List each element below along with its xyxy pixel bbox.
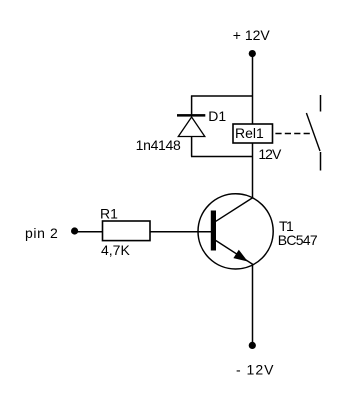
svg-text:12V: 12V [258, 146, 282, 162]
node +12V terminal dot [249, 50, 256, 57]
wire main vertical: +12V dot to relay top [252, 54, 254, 124]
wire pin2 dot to resistor [75, 231, 103, 233]
diode D1 cathode bar [177, 114, 205, 117]
svg-text:pin 2: pin 2 [25, 225, 58, 241]
wire main vertical: emitter to -12V dot [252, 265, 254, 346]
wire resistor to transistor base [150, 231, 213, 233]
diode D1 triangle [178, 117, 205, 137]
svg-text:- 12V: - 12V [236, 362, 274, 378]
transistor T1 circle [198, 194, 273, 269]
svg-text:BC547: BC547 [278, 232, 318, 248]
transistor T1 emitter arrowhead [233, 250, 247, 262]
wire diode branch bottom horizontal [191, 156, 253, 158]
relay actuator dashed link [275, 133, 309, 135]
wire diode branch top horizontal [191, 95, 253, 97]
svg-text:R1: R1 [100, 205, 118, 221]
transistor T1 emitter line [216, 241, 253, 265]
svg-text:Rel1: Rel1 [235, 125, 264, 141]
node -12V terminal dot [249, 342, 256, 349]
wire diode top vertical [191, 96, 193, 116]
switch contact bottom terminal [320, 152, 322, 171]
switch contact top terminal [320, 95, 322, 112]
svg-text:+ 12V: + 12V [233, 27, 271, 43]
transistor T1 base bar [211, 211, 216, 251]
svg-text:1n4148: 1n4148 [136, 137, 181, 153]
wire diode bottom vertical [191, 137, 193, 157]
wire main vertical: relay bottom to transistor collector [252, 143, 254, 198]
relay Rel1 box [233, 124, 273, 143]
svg-text:D1: D1 [208, 108, 226, 124]
switch blade [306, 113, 320, 151]
resistor R1 box [103, 221, 151, 241]
transistor T1 collector line [216, 198, 253, 222]
node pin 2 terminal dot [71, 227, 78, 234]
svg-text:4,7K: 4,7K [101, 242, 130, 258]
